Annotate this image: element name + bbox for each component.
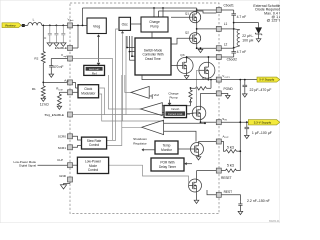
svg-text:PGND: PGND xyxy=(224,87,234,91)
svg-text:Q1: Q1 xyxy=(185,12,189,16)
svg-text:Current Limit: Current Limit xyxy=(168,113,183,116)
svg-text:Vreg: Vreg xyxy=(93,24,100,28)
svg-text:Batt: Batt xyxy=(70,19,74,22)
svg-text:12 kΩ: 12 kΩ xyxy=(40,103,49,107)
svg-text:Charge: Charge xyxy=(149,20,160,24)
svg-text:Clock: Clock xyxy=(84,87,92,91)
svg-text:3.3-V Supply: 3.3-V Supply xyxy=(254,120,272,124)
svg-text:Control: Control xyxy=(89,143,100,147)
svg-text:Q2: Q2 xyxy=(185,30,189,34)
svg-text:1 µF–100 µF: 1 µF–100 µF xyxy=(252,131,272,135)
svg-text:L1: L1 xyxy=(224,22,228,26)
svg-text:Slew Rate: Slew Rate xyxy=(87,139,102,143)
svg-text:Pump: Pump xyxy=(150,25,159,29)
svg-text:Pump: Pump xyxy=(169,96,177,100)
svg-text:R1: R1 xyxy=(32,87,36,91)
svg-text:Osc: Osc xyxy=(122,23,128,27)
svg-text:SCR0: SCR0 xyxy=(58,135,67,139)
svg-text:Q3: Q3 xyxy=(180,53,184,57)
svg-text:22 µF–470 µF: 22 µF–470 µF xyxy=(250,88,272,92)
svg-text:4.7 nF: 4.7 nF xyxy=(237,50,247,54)
svg-text:470 nF: 470 nF xyxy=(53,65,64,69)
svg-text:4.7 nF: 4.7 nF xyxy=(237,15,247,19)
svg-text:SCR1: SCR1 xyxy=(58,146,67,150)
svg-text:Vref: Vref xyxy=(154,93,160,97)
svg-text:Control: Control xyxy=(88,168,99,172)
svg-text:5 kΩ: 5 kΩ xyxy=(227,164,235,168)
svg-text:5Vg_ENABLE: 5Vg_ENABLE xyxy=(45,113,64,117)
svg-text:5-V Supply: 5-V Supply xyxy=(259,78,274,82)
svg-text:ENABLE: ENABLE xyxy=(55,46,67,50)
svg-text:R2: R2 xyxy=(34,57,38,61)
svg-text:REST: REST xyxy=(224,190,233,194)
svg-text:Monitor: Monitor xyxy=(161,148,173,152)
svg-text:Cboot1: Cboot1 xyxy=(224,4,235,8)
svg-text:Ref: Ref xyxy=(92,71,97,75)
svg-text:OUT1: OUT1 xyxy=(224,77,230,79)
svg-text:Inrush: Inrush xyxy=(171,107,180,111)
svg-text:Modulator: Modulator xyxy=(81,92,96,96)
svg-text:5 kΩ: 5 kΩ xyxy=(227,145,235,149)
svg-text:Delay Timer: Delay Timer xyxy=(159,165,177,169)
svg-text:2.2 nF–150 nF: 2.2 nF–150 nF xyxy=(247,199,270,203)
svg-text:Vbattery: Vbattery xyxy=(5,23,16,27)
svg-text:Cboot2: Cboot2 xyxy=(227,57,238,61)
svg-text:L: L xyxy=(33,17,35,21)
svg-text:100 µH: 100 µH xyxy=(242,38,254,42)
svg-text:Regulator: Regulator xyxy=(133,142,146,146)
svg-text:GND: GND xyxy=(59,174,67,178)
svg-text:L2: L2 xyxy=(224,43,228,47)
svg-text:B0280-01: B0280-01 xyxy=(269,220,280,223)
svg-text:CLP: CLP xyxy=(57,158,63,162)
svg-text:@ 125°C: @ 125°C xyxy=(267,19,280,23)
svg-text:Shutdown: Shutdown xyxy=(133,137,147,141)
svg-text:22 µH–: 22 µH– xyxy=(242,34,253,38)
svg-text:RESET: RESET xyxy=(221,176,232,180)
svg-text:ILIM: ILIM xyxy=(59,89,63,91)
svg-text:Dead Time: Dead Time xyxy=(145,57,161,61)
svg-text:Digital Signal: Digital Signal xyxy=(19,164,36,168)
